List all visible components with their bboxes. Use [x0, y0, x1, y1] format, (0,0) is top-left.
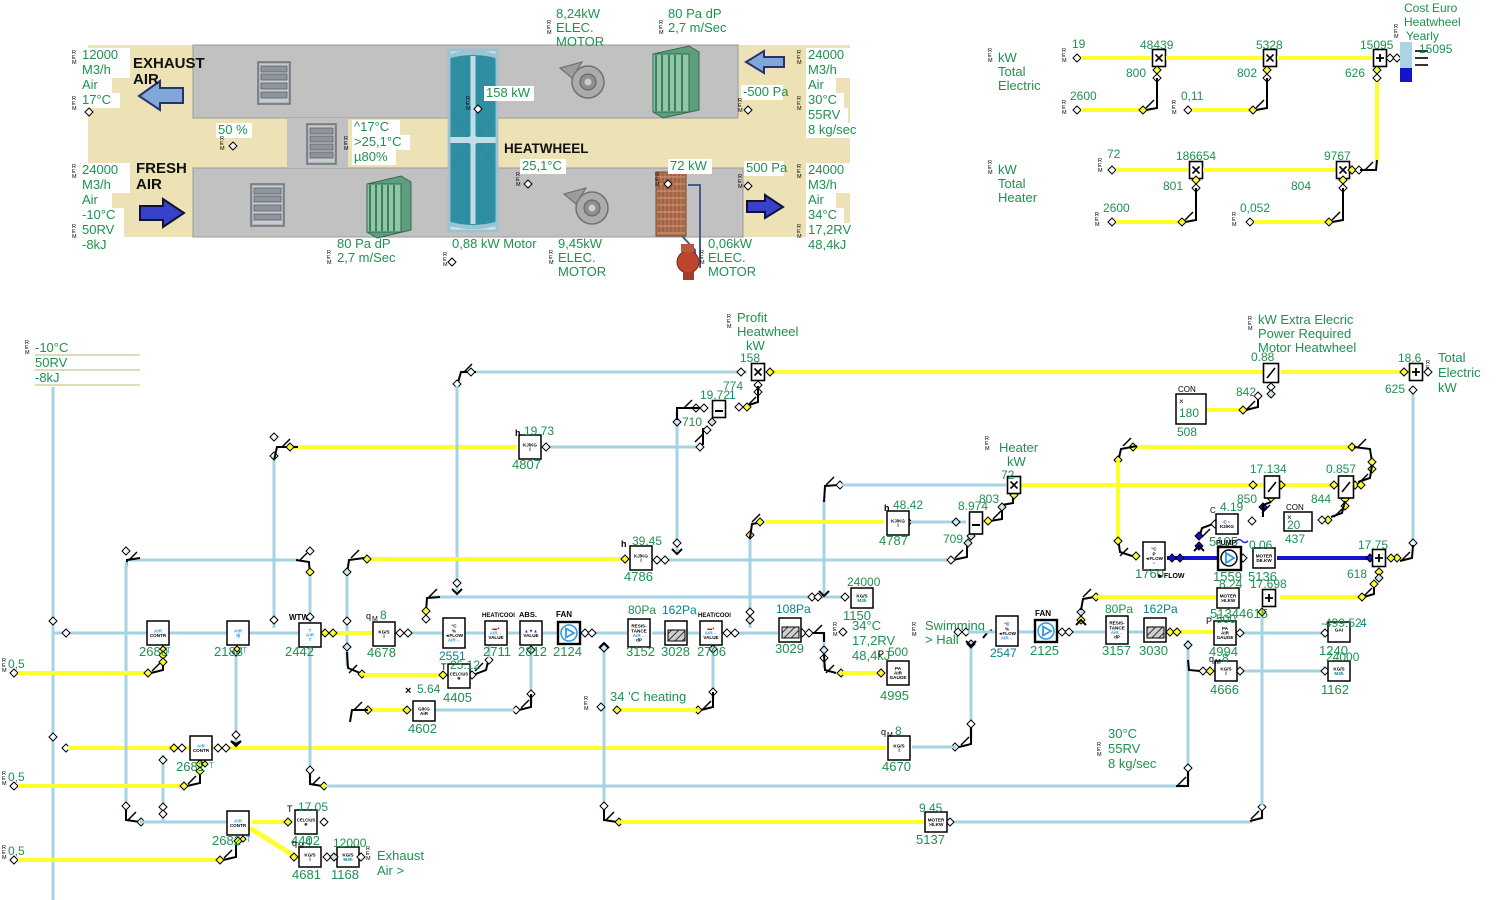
unit conv 1168	[337, 847, 359, 867]
exhaust out labels	[806, 48, 850, 63]
svg-text:34 'C heating: 34 'C heating	[610, 689, 686, 704]
wire: chain2 segments	[968, 631, 995, 634]
svg-text:M: M	[1095, 222, 1100, 228]
air cooler 3029	[779, 618, 801, 642]
wire: con180 out yellow	[1206, 408, 1246, 412]
500 Pa label	[744, 161, 784, 176]
svg-text:2600: 2600	[1103, 201, 1130, 215]
wire: vertical x347	[346, 576, 349, 666]
fresh air state labels	[80, 163, 130, 178]
svg-text:30°C: 30°C	[808, 92, 837, 107]
celsius 4402	[295, 810, 317, 834]
profit multiplier x158	[752, 364, 765, 381]
50 % label	[216, 123, 252, 138]
svg-text:M3/h: M3/h	[808, 62, 837, 77]
spec heat 5105	[1216, 514, 1238, 534]
svg-text:ELEC.: ELEC.	[708, 250, 746, 265]
fan block 2125	[1035, 620, 1057, 642]
svg-text:48.42: 48.42	[893, 498, 923, 512]
pump block 1559	[1218, 547, 1241, 570]
svg-text:8: 8	[895, 724, 902, 738]
svg-text:►FLOW: ►FLOW	[1157, 573, 1185, 580]
svg-text:T: T	[441, 662, 447, 672]
svg-text:M: M	[988, 170, 993, 176]
svg-text:M: M	[344, 146, 349, 152]
svg-text:55RV: 55RV	[1108, 741, 1141, 756]
wire: yellow to 4995	[843, 671, 884, 675]
svg-text:GAUGE: GAUGE	[890, 675, 907, 680]
wire: abs block drop x531	[530, 648, 533, 704]
svg-text:3029: 3029	[775, 641, 804, 656]
wire: elbow left end y447	[1118, 446, 1137, 462]
subtract 19.721	[713, 401, 726, 418]
fan motor 5134	[1217, 588, 1239, 608]
svg-text:AIR: AIR	[136, 176, 162, 193]
junction arrow x604 chain1	[599, 643, 609, 648]
wire: profit yellow y372	[770, 370, 1263, 374]
svg-text:72 kW: 72 kW	[670, 158, 708, 173]
svg-text:T: T	[166, 646, 171, 655]
svg-text:Air: Air	[808, 192, 825, 207]
multiplier block x3	[1190, 162, 1203, 179]
svg-text:FAN: FAN	[1035, 609, 1051, 618]
setpoint labels	[352, 120, 400, 135]
svg-text:9,45kW: 9,45kW	[558, 236, 603, 251]
enthalpy 4787	[887, 511, 909, 535]
svg-text:kW: kW	[1007, 454, 1027, 469]
minus 19721 out left	[700, 404, 708, 412]
svg-text:AIR: AIR	[133, 71, 159, 88]
svg-text:804: 804	[1291, 179, 1311, 193]
wire: bridge y560	[126, 559, 298, 562]
svg-text:M3h: M3h	[857, 598, 866, 603]
svg-text:24000: 24000	[808, 47, 844, 62]
junction arrow x677 on y560	[672, 549, 682, 554]
svg-text:0.857: 0.857	[1326, 462, 1356, 476]
svg-text:80Pa: 80Pa	[628, 603, 656, 617]
wire: yellow y559 to 4786	[364, 557, 628, 561]
svg-text:M: M	[985, 446, 990, 452]
svg-text:625: 625	[1385, 382, 1405, 396]
wire: elbow up to plus 17.75	[1364, 582, 1374, 597]
gain 1240	[1328, 622, 1350, 642]
svg-text:1150: 1150	[843, 608, 871, 623]
wire	[1277, 56, 1372, 60]
svg-text:80Pa: 80Pa	[1105, 602, 1133, 616]
svg-text:8: 8	[1222, 651, 1229, 665]
svg-text:8 kg/sec: 8 kg/sec	[1108, 756, 1157, 771]
motor adder 17698	[1263, 590, 1276, 607]
svg-text:55RV: 55RV	[808, 107, 841, 122]
duct resistance 3157	[1106, 616, 1128, 644]
774 drop from x158	[754, 381, 762, 389]
svg-text:2,7 m/Sec: 2,7 m/Sec	[337, 250, 396, 265]
svg-text:M: M	[25, 350, 30, 356]
svg-text:M: M	[738, 184, 743, 190]
abs value 2812	[520, 621, 542, 645]
svg-text:kW Extra Elecric: kW Extra Elecric	[1258, 312, 1354, 327]
svg-text:M: M	[659, 30, 664, 36]
svg-text:180: 180	[1179, 406, 1199, 420]
wire: x1188 elbow to y786	[1176, 770, 1188, 786]
wire	[1203, 168, 1336, 172]
top right exhaust-out arrow	[746, 51, 784, 73]
exhaust air arrow (left)	[139, 81, 183, 110]
svg-text:Heater: Heater	[999, 440, 1039, 455]
svg-text:500: 500	[888, 645, 908, 659]
svg-text:AiR→: AiR→	[448, 638, 461, 643]
controller 2681	[190, 736, 212, 760]
fresh air arrow (right)	[140, 199, 184, 227]
svg-text:M: M	[797, 174, 802, 180]
svg-text:T: T	[246, 835, 251, 844]
svg-text:M3h: M3h	[1334, 671, 1343, 676]
svg-text:4678: 4678	[367, 645, 396, 660]
wire: yellow y447 to 4807	[290, 445, 517, 449]
svg-text:M: M	[72, 106, 77, 112]
junction arrow x457 end	[452, 589, 462, 594]
wire: yellow to 4787	[766, 520, 884, 524]
svg-text:M: M	[727, 324, 732, 330]
svg-text:h: h	[884, 503, 890, 513]
svg-text:24000: 24000	[82, 162, 118, 177]
divider 0.88	[1264, 364, 1279, 383]
flow block 4678	[373, 622, 395, 646]
wire	[1192, 108, 1254, 112]
svg-text:800: 800	[1126, 66, 1146, 80]
svg-text:25,1°C: 25,1°C	[522, 158, 562, 173]
svg-text:30°C: 30°C	[1108, 726, 1137, 741]
svg-text:158 kW: 158 kW	[486, 85, 531, 100]
pressure gauge 4994	[1214, 621, 1236, 645]
wire: elbow up to minus block	[697, 428, 703, 447]
svg-text:8,24kW: 8,24kW	[556, 6, 601, 21]
25,1°C label	[520, 159, 566, 174]
svg-text:Air >: Air >	[377, 863, 404, 878]
wire: chain2 riser x971	[970, 648, 973, 738]
svg-text:>25,1°C: >25,1°C	[354, 134, 401, 149]
svg-text:-10°C: -10°C	[35, 340, 68, 355]
exhaust damper	[258, 62, 290, 104]
svg-text:2,7 m/Sec: 2,7 m/Sec	[668, 20, 727, 35]
wire: elbow x347 to 4405 yellow	[347, 652, 360, 673]
svg-text:dP: dP	[1114, 635, 1120, 640]
wire: 4602 out lightblue	[436, 709, 514, 712]
svg-text:158: 158	[740, 351, 760, 365]
exhaust air filter	[653, 46, 699, 118]
svg-text:⊕: ⊕	[457, 676, 461, 681]
svg-text:24000: 24000	[847, 575, 881, 589]
svg-text:2188: 2188	[214, 644, 243, 659]
svg-text:AiR→: AiR→	[1001, 636, 1014, 641]
svg-text:618: 618	[1347, 567, 1367, 581]
svg-text:Total: Total	[998, 176, 1026, 191]
chain1 wire segments	[170, 632, 227, 635]
wire: elbow up x1262	[1250, 805, 1262, 821]
svg-text:801: 801	[1163, 179, 1183, 193]
svg-text:3030: 3030	[1139, 643, 1168, 658]
svg-text:M: M	[220, 146, 225, 152]
svg-text:GAUGE: GAUGE	[1217, 635, 1234, 640]
svg-text:Power Required: Power Required	[1258, 326, 1351, 341]
chain2 wire segments	[1019, 631, 1035, 634]
svg-text:M: M	[887, 732, 893, 739]
wire: chain2 motor tap x1081	[1080, 608, 1083, 620]
svg-text:M: M	[738, 108, 743, 114]
svg-text:774: 774	[723, 379, 743, 393]
svg-text:CONTR: CONTR	[193, 748, 210, 753]
svg-text:q: q	[366, 611, 371, 621]
svg-text:HEAT/COOl: HEAT/COOl	[482, 613, 515, 619]
svg-text:M: M	[72, 174, 77, 180]
svg-text:162Pa: 162Pa	[662, 603, 697, 617]
fan block 2124	[558, 622, 580, 644]
supply out labels	[806, 163, 850, 178]
svg-text:508: 508	[1177, 425, 1197, 439]
svg-text:4807: 4807	[512, 457, 541, 472]
svg-text:M: M	[584, 706, 589, 712]
exhaust duct (top, gray)	[193, 45, 738, 118]
enthalpy 4807	[519, 435, 541, 459]
constant CON 180	[1176, 394, 1206, 424]
svg-text:M3/h: M3/h	[82, 62, 111, 77]
svg-text:4615: 4615	[1239, 606, 1268, 621]
svg-text:M: M	[2, 855, 7, 861]
svg-text:Air: Air	[82, 77, 99, 92]
svg-text:4602: 4602	[408, 721, 437, 736]
wire: vertical x750	[749, 537, 752, 628]
svg-text:0,5: 0,5	[8, 844, 25, 858]
158 kW label	[484, 86, 534, 101]
svg-text:0,052: 0,052	[1240, 201, 1270, 215]
wire: elbow y597 to chain1	[426, 597, 440, 612]
svg-text:M: M	[797, 106, 802, 112]
72 kW label	[668, 159, 712, 174]
svg-text:2600: 2600	[1070, 89, 1097, 103]
svg-text:2125: 2125	[1030, 643, 1059, 658]
multiplier block x1	[1153, 50, 1166, 67]
svg-text:>E.KW: >E.KW	[929, 822, 944, 827]
wire: elbow right end y447	[1354, 447, 1372, 462]
svg-text:K2/KG: K2/KG	[1220, 524, 1234, 529]
svg-text:50RV: 50RV	[82, 222, 115, 237]
wire: elbow x1118 into 1760	[1118, 538, 1132, 556]
wire: elbow x604 to 5137	[604, 804, 617, 822]
svg-text:dP: dP	[636, 638, 642, 643]
pressure gauge 4995	[887, 661, 909, 685]
svg-text:M: M	[912, 632, 917, 638]
svg-text:2812: 2812	[518, 644, 547, 659]
svg-text:48,4kJ: 48,4kJ	[852, 648, 890, 663]
wire: vertical x1188	[1187, 640, 1190, 784]
svg-text:4681: 4681	[292, 867, 321, 882]
svg-text:M: M	[549, 260, 554, 266]
svg-text:25.12: 25.12	[450, 658, 480, 672]
unit conv 1162	[1328, 661, 1350, 681]
junction arrow x236 on yellow	[231, 741, 241, 744]
wire: long control yellow	[68, 746, 886, 750]
wire: heater x out yellow y485	[1021, 483, 1264, 487]
svg-text:C: C	[1210, 506, 1216, 515]
svg-text:3157: 3157	[1102, 643, 1131, 658]
svg-text:437: 437	[1285, 532, 1305, 546]
svg-text:M: M	[1232, 222, 1237, 228]
enthalpy 4786	[630, 546, 652, 570]
svg-text:4.19: 4.19	[1220, 500, 1244, 514]
svg-text:1168: 1168	[331, 867, 359, 882]
wire: long lightblue y786	[326, 785, 1186, 788]
svg-text:8: 8	[380, 608, 387, 622]
svg-text:-8kJ: -8kJ	[82, 237, 107, 252]
wire: 4807 out lightblue	[543, 446, 700, 449]
svg-text:M: M	[700, 260, 705, 266]
heat/cool value 2711	[485, 621, 507, 645]
svg-text:M: M	[1248, 326, 1253, 332]
wire: vertical x163	[162, 755, 165, 822]
wire: vertical yellow x1118	[1116, 462, 1120, 540]
constant CON 20	[1284, 512, 1312, 531]
humidity 4602	[413, 701, 435, 721]
wire: 5105 left elbow to pump line	[1199, 524, 1213, 539]
svg-text:ELEC.: ELEC.	[556, 20, 594, 35]
svg-text:M: M	[366, 856, 371, 862]
svg-text:4666: 4666	[1210, 682, 1239, 697]
svg-text:M: M	[988, 58, 993, 64]
wire: 2682 to celsius 4402	[252, 820, 288, 824]
svg-text:Electric: Electric	[1438, 365, 1481, 380]
svg-text:Electric: Electric	[998, 78, 1041, 93]
svg-text:803: 803	[979, 492, 999, 506]
wire: elbow x971 to 4670	[959, 728, 971, 747]
svg-text:M: M	[1172, 110, 1177, 116]
wire: motor 5137 out	[948, 821, 1252, 824]
svg-text:4: 4	[1360, 616, 1367, 630]
svg-text:-10°C: -10°C	[82, 207, 115, 222]
wire: minus 8974 out up to heater x	[990, 495, 1013, 521]
svg-text:MOTOR: MOTOR	[708, 264, 756, 279]
wire: 844 drop from 0.857	[1341, 495, 1349, 503]
svg-text:×: ×	[1179, 397, 1184, 406]
svg-text:Cost Euro: Cost Euro	[1404, 1, 1458, 15]
online plotter icon	[1400, 42, 1412, 68]
svg-text:4670: 4670	[882, 759, 911, 774]
svg-text:FRESH: FRESH	[136, 160, 187, 177]
wire: into controller 2682	[140, 821, 226, 824]
svg-text:0,88 kW Motor: 0,88 kW Motor	[452, 236, 537, 251]
svg-text:CON: CON	[1178, 385, 1196, 394]
svg-text:µ80%: µ80%	[354, 149, 388, 164]
heating coil	[656, 172, 686, 236]
svg-text:M: M	[443, 262, 448, 268]
svg-text:3028: 3028	[661, 644, 690, 659]
svg-text:802: 802	[1237, 66, 1257, 80]
svg-text:h: h	[621, 539, 627, 549]
wire: 4405 out elbow	[473, 658, 489, 675]
pump flow calc 1760	[1143, 542, 1165, 570]
svg-text:FAN: FAN	[556, 610, 572, 619]
wire: branch to chain1	[53, 632, 147, 635]
svg-text:48,4kJ: 48,4kJ	[808, 237, 846, 252]
svg-text:24000: 24000	[1326, 650, 1360, 664]
wire	[1166, 56, 1263, 60]
svg-text:kW: kW	[1438, 380, 1458, 395]
svg-text:CONTR: CONTR	[230, 823, 247, 828]
svg-text:Heatwheel: Heatwheel	[737, 324, 799, 339]
wire: elbow y560 up to minus 8974	[953, 544, 967, 560]
wire: vertical x126	[125, 562, 128, 812]
fan motor 5137	[925, 812, 947, 832]
wire: 4666 to 1162	[1238, 670, 1327, 673]
wire: x158 block feed lightblue y372	[462, 371, 747, 374]
divider 0.857	[1339, 476, 1354, 498]
center gray section around mixing damper	[287, 118, 348, 168]
svg-text:4: 4	[305, 835, 312, 849]
wire: x1188 branch to 4666	[1188, 660, 1200, 671]
svg-text:HEAT/COOl: HEAT/COOl	[698, 613, 731, 619]
controller 2682	[227, 811, 249, 835]
svg-text:Total: Total	[998, 64, 1026, 79]
flow 4666	[1215, 661, 1237, 681]
svg-text:2442: 2442	[285, 644, 314, 659]
svg-text:M: M	[797, 60, 802, 66]
svg-text:Exhaust: Exhaust	[377, 848, 424, 863]
exhaust air state labels	[80, 48, 130, 63]
svg-text:T: T	[287, 804, 293, 814]
svg-text:12000: 12000	[333, 836, 367, 850]
unit conv 1150	[851, 588, 873, 608]
svg-text:AiR: AiR	[420, 711, 429, 716]
svg-text:M3h: M3h	[343, 857, 352, 862]
svg-text:2681: 2681	[176, 759, 205, 774]
wire: 2682 diagonal to 4681	[250, 828, 296, 857]
svg-text:M: M	[1215, 659, 1221, 666]
svg-text:M: M	[72, 234, 77, 240]
svg-text:162Pa: 162Pa	[1143, 602, 1178, 616]
wire: yellow to motor 5137	[621, 820, 924, 824]
wire: branch to long yellow feed	[49, 733, 57, 741]
svg-text:17.134: 17.134	[1250, 462, 1287, 476]
wire: lightblue from 625 down	[1412, 387, 1415, 546]
wire: elbow x126 bottom	[126, 804, 140, 822]
svg-text:4786: 4786	[624, 569, 653, 584]
svg-text:710: 710	[682, 415, 702, 429]
duct resistance 3152	[628, 619, 650, 647]
wire: chain1 vertical x604 down	[603, 645, 606, 812]
svg-text:M: M	[1098, 168, 1103, 174]
svg-text:-500 Pa: -500 Pa	[743, 84, 789, 99]
flow 4681	[299, 847, 321, 867]
svg-text:0.88: 0.88	[1251, 350, 1275, 364]
svg-text:844: 844	[1311, 492, 1331, 506]
svg-text:M: M	[655, 182, 660, 188]
svg-text:8 kg/sec: 8 kg/sec	[808, 122, 857, 137]
svg-text:842: 842	[1236, 385, 1256, 399]
psychro split 2551	[443, 618, 465, 648]
svg-text:Profit: Profit	[737, 310, 768, 325]
svg-text:M3/h: M3/h	[82, 177, 111, 192]
svg-text:M: M	[327, 260, 332, 266]
recirculation damper	[307, 124, 336, 164]
svg-text:Yearly: Yearly	[1406, 29, 1439, 43]
svg-text:626: 626	[1345, 66, 1365, 80]
svg-text:PUMP: PUMP	[1216, 540, 1237, 547]
svg-text:~: ~	[1153, 561, 1156, 566]
svg-text:Heatwheel: Heatwheel	[1404, 15, 1461, 29]
subtract 8.974	[970, 512, 983, 534]
flow 4670	[888, 736, 910, 760]
supply fan	[564, 188, 608, 224]
svg-text:^17°C: ^17°C	[354, 119, 389, 134]
